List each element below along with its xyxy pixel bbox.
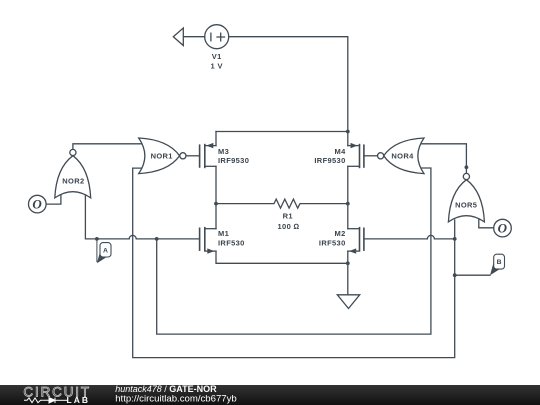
NOR gate NOR5: [448, 173, 484, 222]
flag B: [490, 254, 505, 275]
flag A: [97, 239, 111, 263]
svg-text:IRF9530: IRF9530: [218, 156, 249, 165]
transistor M3: [200, 143, 216, 168]
voltage source V1: [205, 25, 229, 49]
svg-text:NOR1: NOR1: [151, 151, 173, 160]
wire NOR1 output to M3 gate: [186, 155, 200, 157]
wire NOR5 right input to O indicator: [479, 220, 494, 228]
svg-text:M3: M3: [218, 147, 229, 156]
transistor M2: [348, 228, 364, 254]
wire M4 source: [347, 132, 349, 146]
wire inner loop NOR4 lower input: [157, 168, 431, 334]
wire top rail: [216, 131, 348, 133]
wire M3 drain to M1 drain: [215, 166, 217, 228]
wire M2 gate with hop: [364, 235, 455, 239]
wire M4 drain to M2 drain: [347, 166, 349, 228]
svg-text:100 Ω: 100 Ω: [278, 222, 300, 231]
svg-text:huntack478 / GATE-NOR: huntack478 / GATE-NOR: [115, 384, 217, 394]
output indicator O right: [494, 219, 512, 237]
svg-text:M1: M1: [218, 229, 229, 238]
arrow terminal at V1 minus: [173, 28, 183, 46]
svg-text:IRF530: IRF530: [218, 238, 245, 247]
junction node B gate: [453, 237, 457, 241]
junction NOR5 output: [465, 165, 469, 169]
junction R1 left: [214, 202, 218, 206]
svg-text:M4: M4: [334, 147, 346, 156]
svg-text:NOR4: NOR4: [391, 152, 414, 161]
junction node B flag: [453, 273, 457, 277]
ground: [337, 295, 359, 309]
wire NOR2 input to M1 gate with hop: [85, 195, 199, 239]
transistor M4: [348, 143, 364, 168]
junction R1 right: [346, 202, 350, 206]
wire node B: [455, 274, 490, 276]
transistor M1: [200, 228, 216, 254]
svg-text:IRF530: IRF530: [319, 238, 346, 247]
svg-text:M2: M2: [334, 229, 345, 238]
NOR gate NOR2: [55, 149, 91, 198]
output indicator O left: [29, 195, 47, 213]
wire NOR1 lower input to outer loop to NOR5 input: [133, 168, 455, 358]
svg-text:NOR5: NOR5: [455, 201, 477, 210]
junction V+ rail: [346, 130, 350, 134]
svg-text:http://circuitlab.com/cb677yb: http://circuitlab.com/cb677yb: [115, 394, 237, 405]
wire NOR2 output to NOR1 input: [73, 144, 142, 150]
logo resistor diode symbol: [24, 398, 68, 403]
resistor R1: [216, 199, 348, 208]
svg-text:LAB: LAB: [67, 395, 90, 405]
svg-text:V1: V1: [212, 52, 222, 61]
svg-text:B: B: [497, 259, 502, 266]
wire sources to ground node: [216, 251, 348, 295]
svg-text:O: O: [498, 221, 508, 236]
svg-text:A: A: [103, 247, 108, 254]
wire NOR4 output to M4 gate: [364, 155, 378, 157]
svg-text:O: O: [32, 197, 42, 212]
wire M3 source: [215, 132, 217, 146]
NOR gate NOR4: [378, 138, 425, 174]
NOR gate NOR1: [139, 138, 186, 174]
footer bar: [0, 384, 540, 405]
svg-text:1 V: 1 V: [211, 62, 223, 71]
svg-text:IRF9530: IRF9530: [314, 156, 345, 165]
svg-text:NOR2: NOR2: [62, 177, 84, 186]
junction node A loop: [155, 237, 159, 241]
junction node A: [95, 237, 99, 241]
wire V1 arrow lead: [183, 36, 204, 38]
wire V1 to top rail: [229, 37, 348, 132]
wire NOR4 upper input to NOR5 output: [422, 144, 467, 174]
svg-text:R1: R1: [283, 212, 293, 221]
wire O indicator to NOR2 input: [46, 196, 61, 205]
junction ground node: [346, 261, 350, 265]
